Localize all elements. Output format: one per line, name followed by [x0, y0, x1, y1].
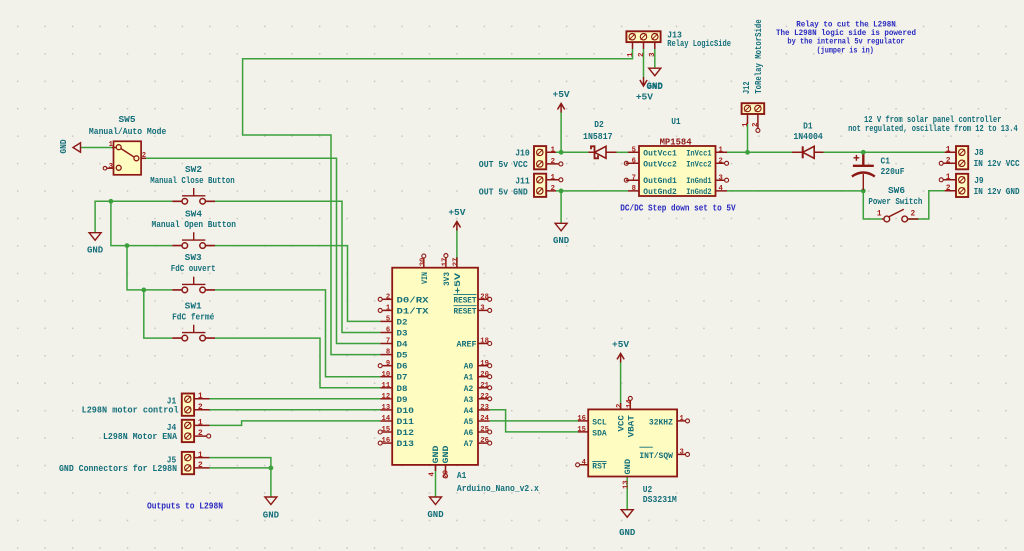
- svg-text:D2: D2: [594, 120, 604, 130]
- svg-text:24: 24: [480, 415, 489, 423]
- svg-text:J10: J10: [515, 149, 530, 159]
- svg-text:IN 12v GND: IN 12v GND: [974, 187, 1021, 197]
- svg-text:+5V: +5V: [636, 92, 653, 103]
- svg-text:GND Connectors for L298N: GND Connectors for L298N: [59, 464, 177, 474]
- svg-text:VBAT: VBAT: [627, 415, 636, 437]
- svg-text:D4: D4: [397, 341, 408, 350]
- svg-text:J9: J9: [974, 176, 984, 186]
- svg-text:7: 7: [632, 174, 636, 182]
- svg-text:1: 1: [627, 52, 635, 57]
- svg-text:not regulated, oscillate from: not regulated, oscillate from 12 to 13.4: [848, 124, 1018, 134]
- svg-text:3: 3: [680, 449, 684, 457]
- svg-text:D10: D10: [397, 407, 415, 416]
- svg-text:29: 29: [442, 470, 450, 479]
- svg-text:OUT 5v GND: OUT 5v GND: [479, 187, 529, 197]
- svg-text:2: 2: [198, 403, 203, 412]
- svg-text:GND: GND: [427, 510, 444, 520]
- svg-text:U1: U1: [671, 117, 681, 127]
- svg-text:2: 2: [198, 461, 203, 470]
- svg-text:D2: D2: [397, 318, 408, 327]
- svg-text:6: 6: [632, 157, 636, 165]
- svg-text:18: 18: [480, 338, 489, 346]
- svg-text:A3: A3: [464, 396, 474, 405]
- svg-text:1N5817: 1N5817: [583, 132, 613, 142]
- svg-text:VIN: VIN: [421, 272, 430, 284]
- svg-text:AREF: AREF: [457, 341, 477, 350]
- svg-text:1: 1: [198, 392, 203, 401]
- svg-text:OutVcc2: OutVcc2: [643, 160, 677, 169]
- svg-text:SW1: SW1: [185, 301, 203, 311]
- svg-text:1: 1: [946, 173, 951, 182]
- svg-text:GND: GND: [624, 459, 633, 475]
- svg-text:1: 1: [198, 419, 203, 428]
- svg-text:SW5: SW5: [119, 115, 136, 125]
- svg-text:D1/TX: D1/TX: [397, 306, 429, 316]
- svg-text:DS3231M: DS3231M: [643, 495, 677, 505]
- svg-text:InVcc2: InVcc2: [686, 160, 711, 169]
- svg-text:2: 2: [551, 185, 556, 193]
- svg-text:22: 22: [480, 393, 489, 401]
- svg-text:Power Switch: Power Switch: [868, 197, 922, 207]
- svg-text:RESET: RESET: [454, 296, 477, 305]
- svg-text:OutGnd1: OutGnd1: [643, 176, 677, 186]
- svg-text:OutGnd2: OutGnd2: [643, 187, 677, 197]
- svg-text:16: 16: [577, 415, 586, 423]
- svg-text:1: 1: [551, 147, 556, 155]
- svg-text:Arduino_Nano_v2.x: Arduino_Nano_v2.x: [457, 484, 540, 494]
- svg-text:SW4: SW4: [185, 210, 203, 220]
- svg-text:D13: D13: [397, 440, 415, 449]
- svg-text:14: 14: [626, 399, 634, 408]
- svg-text:FdC fermé: FdC fermé: [172, 313, 214, 323]
- svg-text:220uF: 220uF: [881, 167, 905, 177]
- svg-text:+5V: +5V: [553, 89, 570, 100]
- svg-text:SW6: SW6: [888, 186, 905, 196]
- svg-text:20: 20: [480, 371, 489, 379]
- svg-text:12: 12: [382, 393, 391, 401]
- svg-text:1: 1: [386, 305, 391, 313]
- svg-text:7: 7: [386, 338, 390, 346]
- svg-text:D1: D1: [803, 121, 813, 131]
- svg-text:GND: GND: [432, 445, 441, 463]
- svg-text:2: 2: [551, 158, 556, 166]
- svg-text:D5: D5: [397, 352, 408, 361]
- svg-text:A5: A5: [464, 418, 474, 427]
- svg-text:2: 2: [142, 152, 146, 160]
- svg-text:SCL: SCL: [592, 418, 606, 427]
- svg-text:GND: GND: [59, 139, 69, 154]
- svg-text:VCC: VCC: [618, 415, 627, 431]
- svg-text:26: 26: [480, 437, 489, 445]
- svg-text:1: 1: [109, 141, 114, 149]
- svg-text:D11: D11: [397, 418, 415, 427]
- svg-text:OUT 5v VCC: OUT 5v VCC: [479, 160, 529, 170]
- svg-text:6: 6: [386, 327, 390, 335]
- svg-text:25: 25: [480, 426, 489, 434]
- svg-text:Manual/Auto Mode: Manual/Auto Mode: [89, 127, 166, 137]
- svg-text:U2: U2: [643, 485, 653, 495]
- svg-text:GND: GND: [263, 511, 280, 521]
- svg-text:SDA: SDA: [592, 429, 606, 438]
- svg-text:5: 5: [632, 146, 636, 154]
- svg-text:SW2: SW2: [185, 165, 202, 175]
- svg-text:Manual Open Button: Manual Open Button: [152, 220, 236, 230]
- svg-text:InGnd1: InGnd1: [686, 176, 711, 186]
- svg-text:+5V: +5V: [612, 339, 629, 350]
- svg-text:4: 4: [429, 472, 437, 477]
- svg-text:A2: A2: [464, 385, 474, 394]
- svg-text:J8: J8: [974, 148, 984, 158]
- svg-text:1N4004: 1N4004: [793, 132, 823, 142]
- svg-text:D0/RX: D0/RX: [397, 295, 429, 305]
- svg-text:9: 9: [386, 360, 390, 368]
- svg-text:28: 28: [480, 293, 489, 301]
- svg-text:1: 1: [946, 145, 951, 154]
- svg-text:2: 2: [911, 211, 916, 219]
- svg-text:1: 1: [877, 211, 882, 219]
- svg-text:30: 30: [419, 258, 427, 267]
- svg-text:2: 2: [616, 404, 624, 408]
- svg-text:C1: C1: [881, 157, 891, 167]
- svg-text:GND: GND: [646, 82, 663, 92]
- svg-text:2: 2: [946, 156, 951, 165]
- svg-text:11: 11: [382, 382, 391, 390]
- svg-text:8: 8: [632, 185, 636, 193]
- svg-text:1: 1: [198, 451, 203, 460]
- svg-text:10: 10: [382, 371, 391, 379]
- svg-text:D9: D9: [397, 396, 408, 405]
- svg-text:A6: A6: [464, 429, 474, 438]
- svg-text:A1: A1: [457, 471, 467, 481]
- svg-text:3: 3: [719, 174, 723, 182]
- svg-text:J11: J11: [515, 176, 530, 186]
- svg-text:Manual Close Button: Manual Close Button: [150, 176, 234, 186]
- svg-text:(jumper is in): (jumper is in): [817, 46, 874, 56]
- svg-text:RESET: RESET: [454, 307, 477, 316]
- svg-text:InVcc1: InVcc1: [686, 149, 711, 158]
- svg-text:D6: D6: [397, 363, 408, 372]
- svg-text:1: 1: [680, 415, 685, 423]
- svg-text:15: 15: [382, 426, 391, 434]
- svg-text:27: 27: [452, 258, 460, 267]
- svg-text:23: 23: [480, 404, 489, 412]
- svg-text:15: 15: [577, 426, 586, 434]
- svg-text:4: 4: [582, 459, 587, 467]
- svg-text:14: 14: [382, 415, 391, 423]
- svg-text:21: 21: [480, 382, 489, 390]
- svg-text:GND: GND: [553, 236, 570, 246]
- svg-text:3: 3: [109, 163, 113, 171]
- svg-text:Outputs to L298N: Outputs to L298N: [147, 501, 223, 511]
- svg-text:8: 8: [386, 349, 390, 357]
- svg-text:1: 1: [551, 174, 556, 182]
- svg-text:Relay LogicSide: Relay LogicSide: [667, 39, 731, 49]
- svg-text:13: 13: [623, 480, 631, 489]
- svg-text:DC/DC Step down set to 5V: DC/DC Step down set to 5V: [620, 204, 736, 214]
- svg-text:D12: D12: [397, 429, 415, 438]
- svg-text:3: 3: [649, 52, 657, 57]
- svg-text:D3: D3: [397, 330, 408, 339]
- svg-text:MP1584: MP1584: [660, 137, 693, 147]
- svg-text:1: 1: [719, 146, 724, 154]
- svg-text:FdC ouvert: FdC ouvert: [171, 264, 216, 274]
- svg-text:32KHZ: 32KHZ: [649, 418, 673, 427]
- svg-text:2: 2: [946, 184, 951, 193]
- svg-text:19: 19: [480, 360, 489, 368]
- svg-text:J12: J12: [742, 82, 752, 95]
- svg-text:RST: RST: [592, 462, 606, 471]
- svg-text:2: 2: [719, 157, 723, 165]
- svg-text:5: 5: [386, 316, 390, 324]
- svg-text:L298N Motor ENA: L298N Motor ENA: [103, 432, 178, 442]
- svg-text:OutVcc1: OutVcc1: [643, 149, 677, 158]
- svg-text:2: 2: [752, 122, 760, 127]
- svg-text:+5V: +5V: [454, 273, 463, 294]
- svg-text:13: 13: [382, 404, 391, 412]
- svg-text:A7: A7: [464, 440, 474, 449]
- svg-text:GND: GND: [87, 246, 104, 256]
- svg-text:A0: A0: [464, 363, 474, 372]
- svg-text:2: 2: [638, 52, 646, 57]
- svg-text:2: 2: [198, 429, 203, 438]
- svg-text:A4: A4: [464, 407, 474, 416]
- svg-text:ToRelay MotorSide: ToRelay MotorSide: [754, 19, 764, 94]
- svg-text:3: 3: [480, 305, 484, 313]
- svg-text:2: 2: [386, 293, 390, 301]
- svg-text:3V3: 3V3: [443, 272, 452, 286]
- svg-text:D7: D7: [397, 374, 408, 383]
- svg-text:GND: GND: [442, 445, 451, 463]
- svg-text:InGnd2: InGnd2: [686, 187, 711, 197]
- svg-text:4: 4: [719, 185, 724, 193]
- svg-text:SW3: SW3: [185, 253, 202, 263]
- svg-text:1: 1: [742, 122, 750, 127]
- svg-text:16: 16: [382, 437, 391, 445]
- svg-text:IN 12v VCC: IN 12v VCC: [974, 159, 1021, 169]
- svg-text:D8: D8: [397, 385, 408, 394]
- svg-text:GND: GND: [619, 528, 636, 538]
- svg-text:+5V: +5V: [448, 207, 465, 218]
- svg-text:L298N motor control: L298N motor control: [82, 405, 180, 415]
- svg-text:17: 17: [441, 258, 449, 267]
- svg-text:A1: A1: [464, 374, 474, 383]
- svg-text:INT/SQW: INT/SQW: [639, 451, 673, 461]
